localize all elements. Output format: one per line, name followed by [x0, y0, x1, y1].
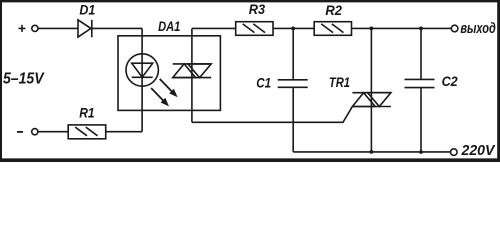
terminal output — [451, 25, 458, 32]
capacitor C1 — [278, 80, 308, 88]
node C2 bottom — [419, 150, 423, 154]
terminal - (negative input) — [32, 129, 38, 135]
border frame — [0, 0, 500, 2]
node R2-TR1 — [370, 27, 374, 31]
diode D1 — [78, 20, 91, 37]
svg-text:выход: выход — [460, 21, 495, 37]
wire C2 vertical top — [420, 28, 422, 79]
triac TR1 — [352, 93, 391, 107]
wire D1 to LED anode — [92, 27, 142, 29]
svg-text:5–15V: 5–15V — [3, 71, 45, 88]
svg-text:DA1: DA1 — [158, 18, 180, 34]
svg-text:R2: R2 — [325, 2, 342, 18]
svg-text:R3: R3 — [249, 1, 265, 17]
svg-text:D1: D1 — [79, 2, 95, 18]
terminal + (positive input) — [32, 25, 38, 31]
wire - to R1 — [38, 131, 68, 133]
svg-text:220V: 220V — [461, 143, 496, 159]
svg-text:R1: R1 — [79, 105, 94, 121]
wire triac top to R3 — [191, 28, 193, 122]
svg-text:TR1: TR1 — [329, 74, 350, 90]
resistor R2 — [314, 22, 351, 36]
resistor R3 — [236, 22, 273, 36]
optocoupler DA1 box — [118, 36, 220, 111]
bottom bus wire — [293, 151, 450, 153]
wire C1 vertical top — [292, 28, 294, 79]
node TR1 bottom — [370, 150, 374, 154]
light arrow 2 — [151, 88, 163, 101]
capacitor C2 — [405, 79, 435, 87]
wire C1 bottom to bus — [292, 87, 294, 152]
wire R1 right to LED cathode — [106, 131, 142, 133]
resistor R1 — [68, 125, 106, 139]
wire R2 to output — [352, 27, 452, 29]
minus sign — [17, 131, 23, 133]
LED of DA1 — [126, 54, 158, 86]
wire R3 to R2 — [273, 27, 314, 29]
photo-triac of DA1 — [173, 64, 212, 78]
plus sign — [19, 25, 26, 32]
wire gate from DA1 to TR1 — [192, 107, 353, 123]
node R3-C1 — [291, 27, 295, 31]
wire + to D1 — [38, 27, 78, 29]
node C2 top — [419, 27, 423, 31]
light arrow 1 — [160, 79, 172, 92]
wire TR1 vertical — [370, 28, 372, 151]
svg-text:C2: C2 — [442, 73, 458, 89]
wire LED vertical — [141, 28, 143, 131]
wire C2 bottom — [420, 88, 422, 153]
svg-text:C1: C1 — [256, 74, 271, 90]
terminal 220V — [451, 149, 458, 156]
